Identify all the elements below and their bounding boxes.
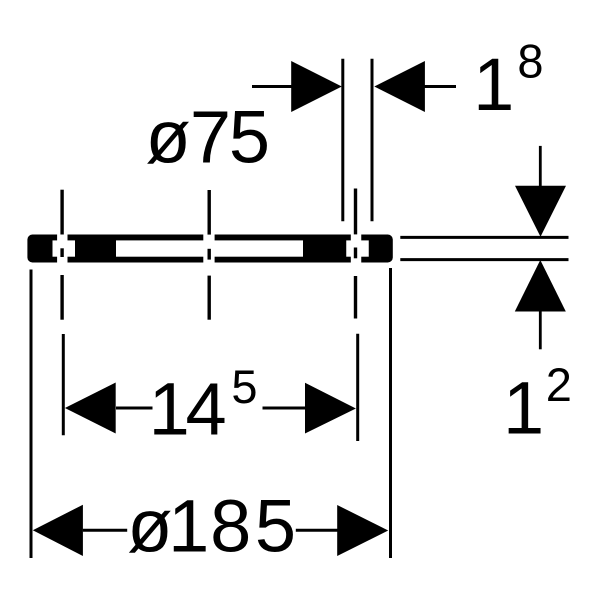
svg-text:5: 5	[255, 484, 296, 567]
dimension 1.2 down arrowhead	[515, 186, 566, 237]
svg-text:1: 1	[473, 43, 514, 126]
extension line 14.5 right	[356, 334, 359, 441]
dimension ø185 dim line left piece	[83, 529, 127, 532]
left section break gap (middle)	[53, 240, 76, 256]
svg-text:ø: ø	[127, 484, 172, 567]
extension line ø75/1.8 right	[371, 59, 374, 222]
dimension 1.8 right leader	[425, 85, 457, 88]
dimension 1.2 up arrowhead	[515, 260, 566, 312]
extension line ø185 left	[30, 270, 33, 559]
left section break gap (outline break)	[57, 233, 67, 264]
dimension 1.8 left arrowhead	[291, 61, 342, 112]
thickness reference line top	[400, 236, 568, 239]
dimension 14.5 right arrowhead	[305, 383, 356, 434]
dimension 1.8 left leader	[252, 85, 292, 88]
svg-text:1: 1	[168, 484, 209, 567]
extension line ø185 right	[389, 268, 392, 558]
dimension 14.5 dim line left piece	[116, 407, 153, 410]
gasket bore channel (white interior)	[116, 240, 303, 256]
center axis outline break	[203, 233, 214, 264]
dimension 1.8 right arrowhead	[374, 61, 425, 112]
dimension 1.2 upper leader	[539, 146, 542, 186]
centerline middle (dash-dot)	[207, 190, 210, 320]
svg-text:1: 1	[503, 367, 544, 450]
dimension 14.5 dim line right piece	[263, 407, 307, 410]
svg-text:8: 8	[210, 484, 251, 567]
svg-text:ø75: ø75	[145, 95, 270, 178]
svg-text:8: 8	[517, 35, 543, 88]
centerline right (dash-dot)	[354, 189, 357, 319]
dimension ø185 right arrowhead	[337, 505, 388, 556]
thickness reference line bottom	[400, 258, 568, 261]
right section break gap (middle)	[346, 240, 369, 256]
right section break gap (outline break)	[351, 233, 361, 264]
svg-text:1: 1	[149, 368, 190, 451]
dimension ø185 left arrowhead	[33, 505, 83, 556]
svg-text:5: 5	[231, 360, 257, 413]
svg-text:4: 4	[186, 368, 227, 451]
dimension ø185 dim line right piece	[296, 529, 338, 532]
dimension 1.2 lower leader	[539, 311, 542, 349]
gasket cross-section body (outer black profile)	[27, 235, 392, 263]
dimension 14.5 left arrowhead	[65, 383, 116, 434]
centerline left (dash-dot)	[60, 190, 63, 320]
extension line 14.5 left	[62, 334, 65, 435]
svg-text:2: 2	[546, 358, 572, 411]
extension line ø75/1.8 left	[341, 59, 344, 222]
